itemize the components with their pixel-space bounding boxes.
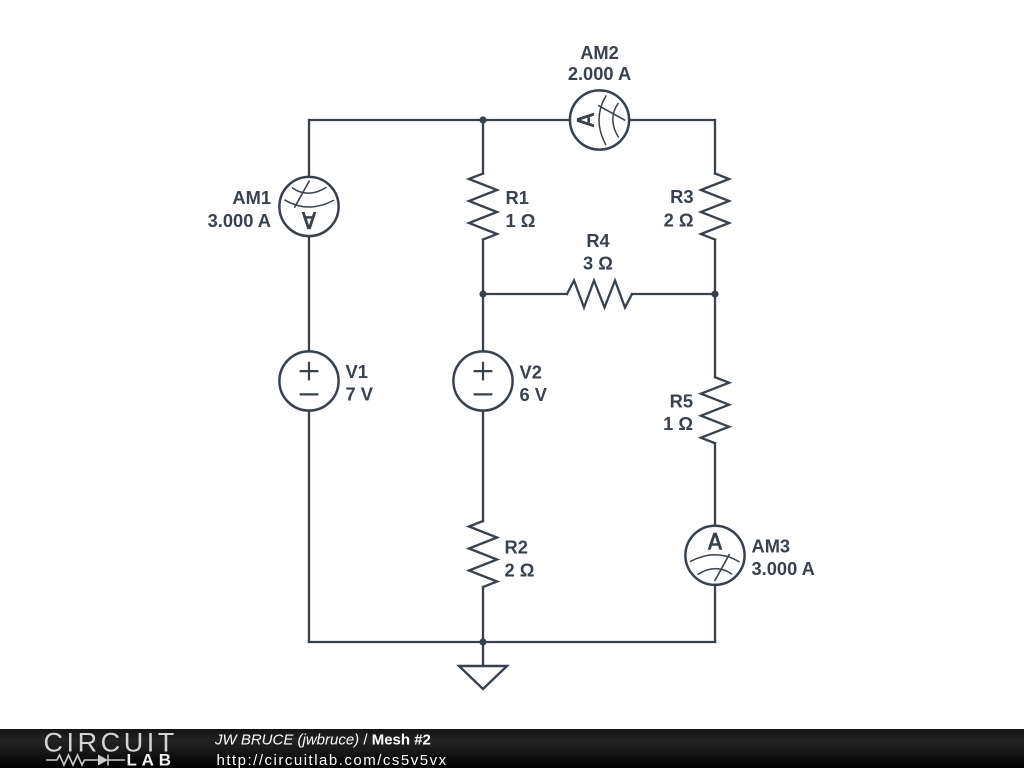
ammeter AM1 [279, 177, 338, 236]
svg-text:R2: R2 [505, 537, 528, 558]
svg-text:V2: V2 [520, 362, 542, 383]
svg-text:AM1: AM1 [232, 187, 271, 208]
resistor R2 [469, 521, 497, 587]
ammeter AM2 [570, 90, 629, 149]
node dot top middle [479, 116, 486, 123]
svg-text:R5: R5 [670, 390, 693, 411]
voltage source V2 [453, 351, 512, 410]
wire R4 rail right segment [632, 293, 715, 295]
wire middle rail between R1 and V2 [482, 240, 484, 352]
node dot R4 left [479, 290, 486, 297]
wire left rail middle [308, 236, 310, 351]
svg-text:1 Ω: 1 Ω [663, 413, 693, 434]
svg-text:http://circuitlab.com/cs5v5vx: http://circuitlab.com/cs5v5vx [217, 752, 448, 768]
wire right rail below AM3 [714, 585, 716, 642]
svg-text:6 V: 6 V [520, 384, 548, 405]
ammeter AM3 [685, 526, 744, 585]
svg-text:1 Ω: 1 Ω [506, 210, 536, 231]
resistor R3 [701, 174, 729, 240]
wire right rail between R3 and R5 [714, 240, 716, 378]
wire top rail right segment [629, 119, 715, 121]
svg-text:AM2: AM2 [580, 42, 619, 63]
wire R4 rail left segment [483, 293, 567, 295]
svg-text:3 Ω: 3 Ω [583, 253, 613, 274]
resistor R4 [567, 281, 632, 308]
svg-text:V1: V1 [346, 361, 368, 382]
ground symbol [459, 666, 507, 689]
svg-text:3.000 A: 3.000 A [208, 210, 271, 231]
svg-text:AM3: AM3 [752, 536, 791, 557]
footer bar [0, 729, 1024, 768]
logo resistor-diode glyph [46, 755, 125, 766]
svg-text:2 Ω: 2 Ω [664, 209, 694, 230]
svg-text:7 V: 7 V [346, 383, 374, 404]
wire right rail top stub [714, 120, 716, 174]
wire left rail lower [308, 411, 310, 642]
wire right rail between R5 and AM3 [714, 443, 716, 526]
wire top rail left segment [309, 119, 570, 121]
ground stem wire [482, 642, 484, 666]
wire middle rail below R2 [482, 587, 484, 642]
wire bottom rail [309, 641, 715, 643]
svg-text:R3: R3 [670, 186, 693, 207]
resistor R1 [469, 174, 497, 240]
svg-text:3.000 A: 3.000 A [752, 558, 815, 579]
svg-text:R4: R4 [586, 230, 610, 251]
node dot ground [479, 638, 486, 645]
node dot R4 right [711, 290, 718, 297]
wire middle rail top stub [482, 120, 484, 174]
wire left rail upper [308, 120, 310, 177]
svg-text:LAB: LAB [127, 751, 176, 768]
wire middle rail between V2 and R2 [482, 411, 484, 521]
svg-text:2.000 A: 2.000 A [568, 63, 631, 84]
svg-text:JW BRUCE (jwbruce) / Mesh #2: JW BRUCE (jwbruce) / Mesh #2 [214, 732, 431, 749]
svg-text:R1: R1 [506, 187, 529, 208]
resistor R5 [701, 377, 729, 443]
voltage source V1 [279, 351, 338, 410]
svg-text:2 Ω: 2 Ω [505, 560, 535, 581]
